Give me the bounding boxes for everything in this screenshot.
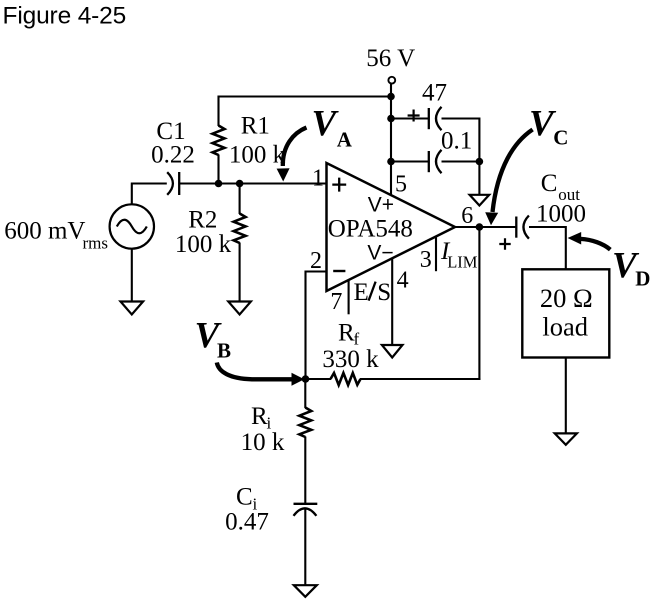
node dot: node B xyxy=(302,375,310,383)
wire: C_out to load corner xyxy=(529,226,567,270)
ground: Ci xyxy=(294,585,317,597)
svg-text:C: C xyxy=(553,125,568,149)
svg-text:0.1: 0.1 xyxy=(441,127,472,154)
wire: output to C_out xyxy=(455,226,516,228)
svg-text:0.47: 0.47 xyxy=(225,508,269,535)
node dot: output node xyxy=(476,223,484,231)
resistor Ri xyxy=(299,408,311,438)
wire: right bypass rail xyxy=(478,118,480,162)
wire: R2 lower lead xyxy=(239,243,241,302)
wire: bypass rail to ground xyxy=(478,162,480,195)
wire: 0.1 cap right lead xyxy=(442,160,480,162)
svg-text:0.22: 0.22 xyxy=(151,142,195,169)
wire: E/S pin 7 bar xyxy=(348,280,350,314)
wire: feedback horizontal right of Rf xyxy=(360,378,480,380)
wire: 56V stub xyxy=(390,84,392,97)
svg-text:V+: V+ xyxy=(368,193,394,216)
svg-text:S: S xyxy=(377,279,391,306)
svg-text:V: V xyxy=(312,104,340,145)
svg-text:rms: rms xyxy=(83,234,109,253)
svg-text:R2: R2 xyxy=(188,206,217,233)
wire: main input wire C1 to op-amp xyxy=(180,182,327,184)
plus sign at 47 cap xyxy=(408,110,420,122)
wire: 0.1 cap left lead xyxy=(391,160,428,162)
svg-text:10 k: 10 k xyxy=(241,429,285,456)
svg-text:R1: R1 xyxy=(241,113,270,140)
ground: bypass caps xyxy=(470,195,490,206)
svg-text:100 k: 100 k xyxy=(229,142,286,169)
svg-text:R: R xyxy=(338,320,355,347)
svg-text:A: A xyxy=(337,127,353,151)
svg-text:20 Ω: 20 Ω xyxy=(540,283,593,313)
ground: pin 4 xyxy=(382,345,403,358)
arrow: VD pointer xyxy=(568,232,611,250)
svg-text:2: 2 xyxy=(310,248,322,274)
resistor R2 xyxy=(234,214,246,244)
arrow: VC pointer xyxy=(485,130,532,226)
svg-text:LIM: LIM xyxy=(447,252,478,271)
wire: load bottom lead xyxy=(565,358,567,434)
ground: R2 xyxy=(228,302,251,315)
op-amp + input symbol xyxy=(332,178,346,192)
wire: pin 4 lead to ground xyxy=(391,258,393,344)
resistor Rf xyxy=(331,373,361,385)
svg-text:load: load xyxy=(542,311,588,341)
svg-text:OPA548: OPA548 xyxy=(328,216,413,243)
svg-text:4: 4 xyxy=(397,267,409,293)
ground: source xyxy=(121,302,144,315)
svg-text:47: 47 xyxy=(422,79,447,106)
svg-text:R: R xyxy=(251,403,268,430)
resistor R1 xyxy=(213,126,225,156)
svg-text:600 mV: 600 mV xyxy=(4,218,85,245)
svg-text:100 k: 100 k xyxy=(175,231,232,258)
wire: feedback horizontal left of Rf xyxy=(306,378,332,380)
wire: top rail from R1 top to supply rail xyxy=(219,95,392,97)
node dot: supply rail top xyxy=(387,93,395,101)
node dot: 0.1 branch right xyxy=(476,158,484,166)
svg-text:330 k: 330 k xyxy=(322,346,379,373)
op-amp U1 OPA548 triangle xyxy=(327,163,456,291)
wire: 47 cap right lead xyxy=(442,117,480,119)
arrow: VA pointer xyxy=(277,128,307,182)
wire: pin 3 bar xyxy=(435,237,437,271)
node dot: 47 branch xyxy=(387,115,395,123)
wire: source bottom lead xyxy=(131,249,133,301)
capacitor Cout xyxy=(516,216,529,239)
node dot: input node A right xyxy=(236,180,244,188)
capacitor 0.1 xyxy=(429,150,442,173)
svg-text:56 V: 56 V xyxy=(366,45,415,72)
svg-text:6: 6 xyxy=(461,203,473,229)
svg-text:C: C xyxy=(541,170,558,197)
svg-text:1000: 1000 xyxy=(536,200,586,227)
capacitor 47 xyxy=(429,107,442,130)
svg-text:D: D xyxy=(635,267,650,291)
svg-text:V−: V− xyxy=(367,241,393,264)
source AC generator xyxy=(110,204,154,248)
op-amp - input symbol xyxy=(333,270,345,272)
wire: R2 upper lead xyxy=(239,184,241,215)
plus sign at Cout xyxy=(499,238,510,249)
capacitor C1 xyxy=(167,172,179,195)
svg-text:C: C xyxy=(236,484,253,511)
node dot: 0.1 branch left xyxy=(387,158,395,166)
wire: feedback rail down xyxy=(478,226,480,380)
wire: pin 2 lead xyxy=(306,271,327,380)
load box xyxy=(522,269,609,357)
wire: Ri to Ci xyxy=(304,437,306,504)
wire: Ci to ground xyxy=(304,508,306,586)
capacitor Ci xyxy=(294,504,318,516)
wire: source top lead xyxy=(131,184,167,205)
node dot: input node A left xyxy=(215,180,223,188)
wire: supply rail down to pin 5 xyxy=(390,97,392,196)
ground: load xyxy=(555,433,577,444)
wire: Ri top lead xyxy=(304,379,306,408)
wire: 47 cap left lead xyxy=(391,117,428,119)
svg-text:5: 5 xyxy=(395,172,407,198)
svg-text:Figure 4-25: Figure 4-25 xyxy=(3,3,127,30)
svg-text:E: E xyxy=(354,279,369,306)
svg-text:3: 3 xyxy=(420,247,432,273)
wire: R1 upper lead xyxy=(217,96,219,127)
56V terminal open circle xyxy=(388,77,395,84)
svg-text:1: 1 xyxy=(312,166,324,192)
wire: R1 lower lead xyxy=(217,155,219,184)
svg-text:7: 7 xyxy=(330,289,342,315)
arrow: VB pointer xyxy=(217,363,304,386)
svg-text:B: B xyxy=(217,338,231,362)
